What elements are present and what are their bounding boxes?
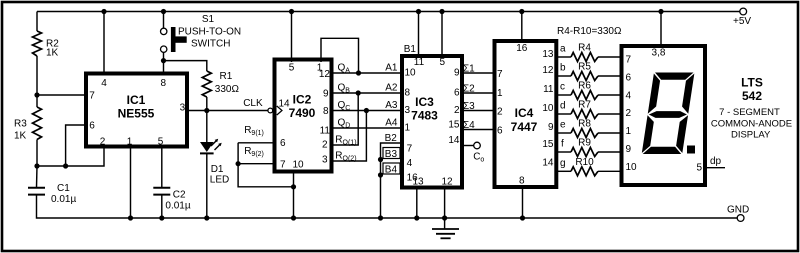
svg-text:9: 9 <box>323 89 329 100</box>
wire RO(1) to QB <box>332 93 359 145</box>
resistor R3 <box>36 95 38 107</box>
svg-text:9: 9 <box>626 144 632 155</box>
svg-text:7 - SEGMENT: 7 - SEGMENT <box>719 107 780 118</box>
svg-text:g: g <box>560 158 566 169</box>
svg-text:1: 1 <box>497 88 503 99</box>
svg-text:7483: 7483 <box>411 109 438 123</box>
svg-text:f: f <box>561 139 564 150</box>
wire IC3 pin12 to ground <box>444 187 446 218</box>
svg-text:13: 13 <box>412 177 424 188</box>
capacitor C1 <box>36 166 39 187</box>
svg-text:8: 8 <box>405 88 411 99</box>
wire RO(2) to QC <box>332 111 367 162</box>
svg-text:11: 11 <box>414 57 425 68</box>
decimal point <box>687 146 695 154</box>
svg-text:IC1: IC1 <box>127 93 146 107</box>
svg-text:14: 14 <box>279 99 291 110</box>
wire QA to A1 <box>332 72 403 74</box>
svg-text:e: e <box>560 120 566 131</box>
svg-text:7: 7 <box>89 91 95 102</box>
resistor R7 row d <box>556 100 622 119</box>
svg-text:5: 5 <box>158 137 164 148</box>
node pin5 rail junction <box>289 9 294 14</box>
svg-text:8: 8 <box>519 176 525 187</box>
svg-text:DISPLAY: DISPLAY <box>731 129 771 140</box>
svg-text:Σ3: Σ3 <box>463 101 475 112</box>
wire IC3 pin13 to ground <box>416 187 418 218</box>
node B4 box (B4) <box>383 163 400 174</box>
wire IC1 pin1 to ground <box>130 147 132 219</box>
resistor R2 <box>36 12 38 32</box>
wire IC4 pin16 to +5V <box>521 12 523 42</box>
svg-text:3: 3 <box>322 155 328 166</box>
capacitor C2 <box>153 187 170 189</box>
svg-text:7: 7 <box>497 69 503 80</box>
svg-text:8: 8 <box>323 106 329 117</box>
wire +5V top rail <box>37 11 740 13</box>
svg-text:A3: A3 <box>385 100 398 111</box>
svg-text:Σ4: Σ4 <box>463 120 475 131</box>
svg-text:R7: R7 <box>578 100 591 111</box>
node IC1 pin7 junction <box>34 92 39 97</box>
node RO(2)/QC junction <box>364 108 369 113</box>
ground symbol <box>444 218 446 228</box>
svg-text:14: 14 <box>542 158 554 169</box>
svg-text:4: 4 <box>101 78 107 89</box>
svg-text:LTS: LTS <box>741 76 763 90</box>
svg-text:10: 10 <box>626 162 638 173</box>
svg-text:542: 542 <box>742 89 762 103</box>
resistor R10 row g <box>556 157 622 176</box>
node R1/D1/CLK junction <box>204 108 209 113</box>
wire sigma2 to IC4 pin1 <box>462 92 495 94</box>
svg-text:SWITCH: SWITCH <box>191 39 230 50</box>
svg-text:11: 11 <box>543 84 554 95</box>
svg-text:15: 15 <box>448 120 460 131</box>
node D1 ground junction <box>204 215 209 220</box>
svg-text:13: 13 <box>542 49 554 60</box>
wire sigma1 to IC4 pin7 <box>462 72 495 74</box>
svg-text:A1: A1 <box>385 63 398 74</box>
svg-text:7490: 7490 <box>289 106 316 120</box>
svg-text:R3: R3 <box>14 119 27 130</box>
svg-text:5: 5 <box>696 163 702 174</box>
svg-text:6: 6 <box>454 88 460 99</box>
wire IC3 pin5 to +5V <box>441 12 443 59</box>
svg-text:Σ1: Σ1 <box>463 64 475 75</box>
svg-text:1: 1 <box>127 137 133 148</box>
svg-text:1: 1 <box>626 126 632 137</box>
svg-text:4: 4 <box>626 91 632 102</box>
node S1/R1/pin8 junction <box>161 58 166 63</box>
wire IC1 pin4 to +5V <box>103 12 105 74</box>
node pin6 branch junction <box>63 163 68 168</box>
svg-text:Σ2: Σ2 <box>463 84 475 95</box>
svg-text:1K: 1K <box>46 48 59 59</box>
wire GND bottom rail <box>37 195 738 218</box>
resistor R6 row c <box>556 81 622 100</box>
IC2 7490 <box>275 60 332 172</box>
svg-text:9: 9 <box>454 68 460 79</box>
node loop/QA junction <box>356 70 361 75</box>
svg-text:2: 2 <box>454 105 460 116</box>
resistor R4 row a <box>556 43 622 62</box>
svg-text:B2: B2 <box>385 133 398 144</box>
svg-text:c: c <box>560 82 565 93</box>
svg-text:2: 2 <box>626 108 632 119</box>
node B3 box (B3) <box>383 148 400 159</box>
wire sigma4 to IC4 pin6 <box>462 129 495 131</box>
svg-text:R6: R6 <box>578 81 591 92</box>
IC2 CLK bubble <box>268 108 273 113</box>
wire display pin3,8 to +5V <box>660 12 662 47</box>
svg-text:b: b <box>560 63 566 74</box>
wire reset column to pin10 <box>238 143 293 187</box>
svg-text:IC3: IC3 <box>415 95 434 109</box>
svg-text:15: 15 <box>542 139 554 150</box>
node pin10 ground junction <box>291 215 296 220</box>
node pin4 rail junction <box>101 9 106 14</box>
svg-text:12: 12 <box>441 177 453 188</box>
resistor R5 row b <box>556 62 622 81</box>
node pin1 ground junction <box>128 215 133 220</box>
wire pin7 <box>37 94 86 96</box>
svg-text:dp: dp <box>710 156 722 167</box>
svg-text:B4: B4 <box>385 164 398 175</box>
svg-text:R5: R5 <box>578 62 591 73</box>
wire QB to A2 <box>332 92 403 94</box>
svg-text:R8: R8 <box>578 119 591 130</box>
svg-text:S1: S1 <box>202 14 215 25</box>
svg-text:CLK: CLK <box>243 98 263 109</box>
svg-text:C1: C1 <box>57 183 70 194</box>
svg-text:NE555: NE555 <box>118 107 155 121</box>
wire Co terminal <box>462 145 474 147</box>
svg-text:6: 6 <box>280 138 286 149</box>
svg-text:8: 8 <box>161 78 167 89</box>
svg-text:1K: 1K <box>14 131 27 142</box>
svg-text:6: 6 <box>626 73 632 84</box>
svg-text:10: 10 <box>405 68 417 79</box>
svg-text:0.01µ: 0.01µ <box>165 201 190 212</box>
wire IC1 pin3 / CLK <box>187 110 268 112</box>
svg-text:2: 2 <box>322 140 328 151</box>
LED D1 <box>206 111 208 143</box>
wire B1 / IC3 pin11 to +5V <box>418 12 420 59</box>
svg-text:A4: A4 <box>385 118 398 129</box>
resistor R9 row f <box>556 138 622 157</box>
svg-text:d: d <box>560 101 566 112</box>
seven-segment digit 8 <box>642 73 695 155</box>
svg-text:R1: R1 <box>220 71 233 82</box>
IC3 7483 <box>402 56 462 188</box>
svg-text:5: 5 <box>440 57 446 68</box>
svg-text:5: 5 <box>289 63 295 74</box>
svg-text:GND: GND <box>727 205 749 216</box>
node C2 ground junction <box>159 215 164 220</box>
svg-text:R10: R10 <box>575 157 594 168</box>
node R3/C1/pin2 junction <box>34 163 39 168</box>
resistor R8 row e <box>556 119 622 138</box>
svg-text:10: 10 <box>293 160 305 171</box>
node pin10 junction <box>291 184 296 189</box>
svg-text:IC2: IC2 <box>293 93 312 107</box>
node R9 junction <box>236 161 241 166</box>
wire B2 to ground column <box>381 143 403 218</box>
wire IC1 pin5 to C2 <box>161 147 163 188</box>
svg-text:7: 7 <box>280 160 286 171</box>
wire QD to A4 <box>332 127 403 129</box>
svg-text:PUSH-TO-ON: PUSH-TO-ON <box>178 27 241 38</box>
wire R9(1) IC2 pin6 <box>238 142 274 144</box>
svg-text:7447: 7447 <box>511 120 538 134</box>
svg-text:12: 12 <box>542 65 554 76</box>
svg-text:2: 2 <box>100 137 106 148</box>
svg-text:IC4: IC4 <box>515 106 534 120</box>
svg-text:a: a <box>560 44 566 55</box>
resistor R1 <box>202 71 211 97</box>
svg-text:12: 12 <box>319 69 331 80</box>
svg-text:10: 10 <box>542 103 554 114</box>
svg-text:+5V: +5V <box>733 16 751 27</box>
svg-text:D1: D1 <box>211 164 224 175</box>
svg-text:9: 9 <box>548 122 554 133</box>
wire R9(2) IC2 pin7 <box>238 163 274 165</box>
GND terminal <box>737 215 744 222</box>
IC4 7447 <box>495 41 557 187</box>
svg-text:A2: A2 <box>385 83 398 94</box>
svg-text:3: 3 <box>405 105 411 116</box>
wire IC1 pin6 <box>66 125 86 166</box>
svg-text:7: 7 <box>626 55 632 66</box>
svg-text:4: 4 <box>407 158 413 169</box>
wire sigma3 to IC4 pin2 <box>462 110 495 112</box>
svg-text:330Ω: 330Ω <box>215 84 240 95</box>
svg-text:3: 3 <box>180 103 186 114</box>
wire dp terminal <box>705 167 725 169</box>
node B column ground junction <box>378 215 383 220</box>
svg-text:LED: LED <box>210 175 229 186</box>
display LTS542 box <box>622 46 706 185</box>
wire QC to A3 <box>332 110 403 112</box>
node RO(1)/QB junction <box>356 90 361 95</box>
+5V terminal <box>740 8 747 15</box>
wire S1 to IC1 pin8 <box>163 52 165 73</box>
wire IC2 pin10 to ground <box>293 170 295 218</box>
svg-text:11: 11 <box>320 126 331 137</box>
wire junction to R1 <box>164 61 207 71</box>
svg-text:3,8: 3,8 <box>652 48 666 59</box>
svg-text:0.01µ: 0.01µ <box>51 194 76 205</box>
svg-text:COMMON-ANODE: COMMON-ANODE <box>711 118 792 129</box>
svg-text:14: 14 <box>448 135 460 146</box>
svg-text:R9: R9 <box>578 138 591 149</box>
wire IC2 pin1 loop to QA <box>321 38 359 73</box>
svg-text:7: 7 <box>407 144 413 155</box>
svg-text:6: 6 <box>497 126 503 137</box>
svg-text:B3: B3 <box>385 149 398 160</box>
IC1 NE555 <box>86 74 187 147</box>
wire IC4 pin8 to ground <box>522 187 524 218</box>
svg-text:R4-R10=330Ω: R4-R10=330Ω <box>557 26 622 37</box>
svg-text:C2: C2 <box>173 190 186 201</box>
svg-text:R4: R4 <box>578 43 591 54</box>
IC2 CLK wedge <box>277 106 282 115</box>
svg-text:1: 1 <box>405 123 411 134</box>
wire IC1 pin2 <box>37 149 104 167</box>
svg-text:6: 6 <box>89 121 95 132</box>
svg-text:B1: B1 <box>404 44 417 55</box>
wire IC2 pin5 to +5V <box>291 12 293 63</box>
svg-text:16: 16 <box>516 43 528 54</box>
svg-text:2: 2 <box>497 107 503 118</box>
switch S1 <box>161 9 166 14</box>
